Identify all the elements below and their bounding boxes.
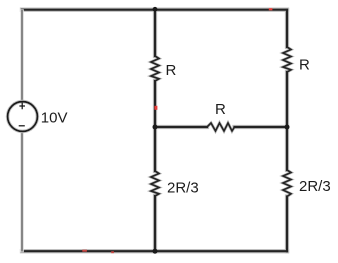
wire left rail lower (gray) <box>21 132 23 251</box>
wire middle branch upper <box>154 10 156 56</box>
red connection mark on middle branch <box>154 106 157 110</box>
svg-text:2R/3: 2R/3 <box>167 180 199 197</box>
voltage source V1 circle <box>8 102 38 132</box>
wire middle branch lower <box>154 196 156 251</box>
junction dot right middle node <box>285 125 290 130</box>
wire soft-edge underlay (halo copies of all dark wires) <box>22 10 291 252</box>
wire middle horizontal left lead <box>155 126 207 128</box>
voltage source V1 minus sign <box>19 125 25 127</box>
resistor R2 body (right top R) <box>283 47 291 72</box>
resistor R3 body (middle 2R/3) <box>151 171 159 196</box>
svg-text:R: R <box>215 101 226 118</box>
svg-text:R: R <box>166 62 177 79</box>
junction dot bottom middle node <box>153 249 158 254</box>
red connection mark on bottom rail right <box>111 251 114 253</box>
wire right branch upper <box>286 10 288 47</box>
svg-text:R: R <box>299 57 310 74</box>
red connection mark on bottom rail left <box>82 250 87 252</box>
voltage source V1 plus sign <box>19 103 25 126</box>
wire top rail <box>22 9 287 11</box>
wire bottom rail <box>22 250 287 252</box>
resistor R4 body (horizontal R) <box>207 123 235 131</box>
wire right branch lower <box>286 197 288 252</box>
wire middle horizontal right lead <box>235 126 288 128</box>
wire left rail upper (gray) <box>21 11 23 102</box>
junction dot top middle node <box>153 7 158 12</box>
svg-text:2R/3: 2R/3 <box>299 178 331 195</box>
wire left rail soft-edge underlay <box>20 11 24 250</box>
wire right branch mid <box>286 72 288 170</box>
resistor R1 body (middle top R) <box>151 56 159 81</box>
red connection mark on top rail <box>269 8 273 10</box>
resistor R5 body (right 2R/3) <box>283 170 291 197</box>
junction dot middle node <box>153 125 158 130</box>
svg-text:10V: 10V <box>41 110 68 127</box>
wire middle branch mid <box>154 81 156 171</box>
